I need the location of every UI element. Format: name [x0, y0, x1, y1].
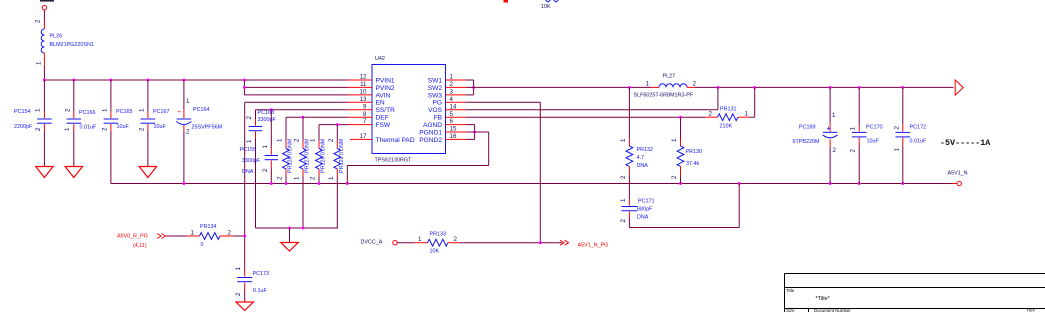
svg-text:2: 2 [102, 127, 109, 131]
pin 9 SS/TR [348, 109, 373, 111]
ground [139, 167, 156, 178]
resistor PR132 [620, 87, 653, 199]
capacitor PC171 [620, 198, 655, 223]
pin 5 FB [446, 116, 467, 118]
svg-text:1: 1 [832, 112, 836, 119]
op-amp/regulator U42 body [372, 65, 446, 154]
svg-text:2: 2 [139, 127, 146, 131]
pin 2 of PL26 [43, 22, 45, 29]
svg-text:1: 1 [191, 230, 195, 237]
ferrite bead PL26 [41, 29, 44, 53]
svg-text:2: 2 [277, 176, 284, 180]
svg-text:2: 2 [620, 175, 627, 179]
svg-text:A5V0_R_PG: A5V0_R_PG [117, 234, 148, 240]
svg-text:DNA: DNA [637, 215, 649, 221]
SECTION: title block [785, 274, 1045, 312]
capacitor PC170 [850, 87, 883, 183]
svg-text:8: 8 [363, 111, 367, 118]
wire stub from sheet above [504, 0, 509, 3]
svg-text:6TPB220M: 6TPB220M [793, 139, 820, 145]
svg-text:DNM: DNM [339, 138, 345, 151]
resistor PR134 [187, 224, 234, 248]
svg-text:PVIN1: PVIN1 [376, 77, 395, 84]
resistor PR131 [706, 107, 750, 130]
wire DEF net [286, 116, 348, 118]
svg-text:1: 1 [246, 139, 253, 143]
pin 10 AVIN [348, 94, 373, 96]
wire VOS [466, 109, 718, 111]
svg-text:SW1: SW1 [428, 77, 443, 84]
svg-text:2: 2 [454, 236, 458, 243]
svg-text:16: 16 [450, 133, 457, 140]
wire PG [466, 101, 540, 103]
VIN bus wire [44, 79, 347, 81]
capacitor PC172 [893, 87, 927, 183]
pin 13 EN [348, 101, 373, 103]
svg-text:2: 2 [235, 292, 242, 296]
input terminal [42, 6, 46, 10]
resistor PR128 [310, 125, 327, 184]
svg-text:1: 1 [745, 111, 749, 118]
net name fragment top-left [40, 0, 54, 2]
svg-text:DNA: DNA [242, 169, 254, 175]
svg-text:PC165: PC165 [116, 109, 132, 115]
svg-text:2: 2 [709, 111, 713, 118]
svg-text:(4,11): (4,11) [133, 243, 147, 249]
node dots on GND bus [182, 182, 185, 185]
pin 4 PG [446, 101, 467, 103]
svg-text:3300pF: 3300pF [258, 117, 277, 123]
svg-text:FB: FB [434, 115, 443, 122]
resistor PR129 [328, 125, 345, 228]
capacitor PC168 [246, 110, 276, 228]
resistor PR130 [671, 117, 702, 183]
pin fragment marks [546, 0, 551, 2]
svg-text:2200pF: 2200pF [14, 124, 33, 130]
svg-text:PL27: PL27 [663, 74, 676, 80]
svg-text:12: 12 [360, 74, 367, 81]
svg-text:6: 6 [450, 118, 454, 125]
svg-text:DEF: DEF [376, 115, 389, 122]
svg-text:3300pF: 3300pF [242, 158, 261, 164]
wire to AVIN [244, 94, 347, 96]
polarized capacitor PC164 [176, 80, 222, 184]
resistor PR127 [294, 117, 311, 228]
svg-text:4: 4 [450, 96, 454, 103]
wire snubber return [628, 219, 630, 228]
svg-text:PC164: PC164 [193, 107, 209, 113]
svg-text:PC170: PC170 [866, 125, 882, 131]
pin 14 VOS [446, 109, 467, 111]
wire PG out [460, 242, 562, 244]
ground [236, 302, 253, 311]
svg-text:Size: Size [786, 308, 795, 312]
svg-text:DNM: DNM [321, 138, 327, 151]
svg-text:1: 1 [646, 80, 650, 87]
svg-text:17: 17 [360, 133, 367, 140]
svg-text:PL26: PL26 [50, 34, 63, 40]
svg-text:TPS62130RGT: TPS62130RGT [375, 158, 413, 164]
svg-text:0.1uF: 0.1uF [253, 288, 267, 294]
svg-text:Document Number: Document Number [814, 308, 851, 312]
svg-text:2: 2 [310, 176, 317, 180]
capacitor PC166 [64, 80, 97, 167]
svg-text:210K: 210K [720, 124, 733, 130]
capacitor PC173 [235, 236, 269, 302]
svg-text:1: 1 [102, 108, 109, 112]
pin 17 Thermal PAD [350, 138, 372, 140]
svg-text:0.01uF: 0.01uF [80, 125, 97, 131]
pin 16 PGND2 [446, 138, 467, 140]
svg-text:A5V1_N_PG: A5V1_N_PG [578, 243, 609, 249]
svg-text:1: 1 [620, 198, 627, 202]
capacitor PC154 [14, 80, 52, 167]
svg-text:A5V1_N: A5V1_N [948, 171, 968, 177]
capacitor PC155 [240, 110, 279, 184]
svg-text:680pF: 680pF [637, 207, 653, 213]
GND bus wire [111, 183, 952, 185]
wire [397, 242, 414, 244]
svg-text:SW3: SW3 [428, 92, 443, 99]
wire lower gnd link [256, 227, 338, 229]
pin 7 FSW [348, 124, 373, 126]
svg-text:1: 1 [850, 126, 857, 130]
wire to EN vertical [234, 235, 245, 237]
wire SS/TR net [256, 109, 348, 111]
svg-text:BLM21PG220SN1: BLM21PG220SN1 [50, 42, 94, 48]
pin 15 PGND1 [446, 131, 467, 133]
svg-text:1: 1 [671, 138, 678, 142]
svg-text:1: 1 [450, 74, 454, 81]
svg-text:2: 2 [328, 138, 335, 142]
svg-text:*Title*: *Title* [816, 296, 831, 302]
wire output rail [695, 86, 954, 88]
wire gnd drop [289, 228, 291, 243]
svg-text:10K: 10K [430, 249, 440, 255]
capacitor PC167 [139, 80, 170, 167]
svg-text:25SVPF56M: 25SVPF56M [192, 125, 223, 131]
svg-text:1: 1 [418, 236, 422, 243]
svg-text:PG: PG [432, 100, 442, 107]
svg-text:9: 9 [363, 103, 367, 110]
svg-text:2: 2 [35, 127, 42, 131]
svg-text:PR131: PR131 [720, 107, 736, 113]
svg-text:10uF: 10uF [867, 139, 880, 145]
svg-text:DNA: DNA [637, 163, 649, 169]
pin 12 PVIN1 [348, 79, 373, 81]
svg-text:2: 2 [228, 230, 232, 237]
svg-text:1: 1 [36, 61, 43, 65]
svg-text:1: 1 [294, 176, 301, 180]
svg-text:2: 2 [294, 138, 301, 142]
svg-text:PC173: PC173 [253, 271, 269, 277]
wire [43, 10, 45, 22]
svg-text:PR128 0: PR128 0 [321, 152, 327, 173]
svg-text:SW2: SW2 [428, 85, 443, 92]
svg-text:PR126 0: PR126 0 [288, 152, 294, 173]
net A5V1_N_PG output [560, 240, 569, 245]
svg-text:PGND2: PGND2 [419, 137, 442, 144]
svg-text:1: 1 [186, 98, 190, 105]
svg-text:2: 2 [186, 129, 190, 136]
svg-text:5: 5 [450, 111, 454, 118]
capacitor PC165 [102, 80, 133, 184]
pin 11 PVIN2 [348, 86, 373, 88]
wire PGND1 return [466, 131, 489, 133]
svg-text:EN: EN [376, 100, 385, 107]
svg-text:37.4k: 37.4k [686, 161, 699, 167]
svg-text:AVIN: AVIN [376, 92, 391, 99]
svg-text:FSW: FSW [376, 122, 391, 129]
svg-text:PR130: PR130 [686, 149, 702, 155]
wire AGND tie [466, 124, 475, 126]
svg-text:2: 2 [35, 19, 42, 23]
svg-text:14: 14 [450, 103, 457, 110]
svg-text:+: + [178, 110, 181, 116]
wire FSW net [319, 124, 348, 126]
svg-text:10uF: 10uF [117, 124, 130, 130]
svg-text:2: 2 [893, 126, 900, 130]
svg-text:PC155: PC155 [240, 147, 256, 153]
svg-text:Thermal PAD: Thermal PAD [376, 137, 415, 144]
svg-text:VOS: VOS [428, 107, 443, 114]
wire SW tie [466, 79, 474, 81]
svg-text:1: 1 [893, 148, 900, 152]
ground [65, 167, 82, 178]
svg-text:7: 7 [363, 118, 367, 125]
svg-text:1: 1 [235, 267, 242, 271]
svg-text:1: 1 [262, 145, 269, 149]
svg-text:Title: Title [786, 288, 795, 293]
svg-text:2: 2 [671, 175, 678, 179]
svg-text:10uF: 10uF [154, 124, 167, 130]
svg-text:PC166: PC166 [79, 110, 95, 116]
pin 6 AGND [446, 124, 467, 126]
wire to PVIN2 [244, 86, 347, 88]
svg-text:1: 1 [328, 176, 335, 180]
svg-text:1: 1 [64, 127, 71, 131]
svg-text:0.01uF: 0.01uF [910, 139, 927, 145]
svg-text:2: 2 [246, 116, 253, 120]
ground [36, 167, 53, 178]
svg-text:1: 1 [620, 138, 627, 142]
wire FB [466, 116, 706, 118]
svg-text:DVCC_A: DVCC_A [361, 240, 383, 246]
inductor PL27 [634, 74, 697, 99]
wire FB top tie [749, 116, 755, 118]
wire SW node [466, 86, 651, 88]
wire EN net [245, 101, 348, 103]
svg-text:2: 2 [64, 108, 71, 112]
svg-text:PR132: PR132 [637, 147, 653, 153]
wire VIN vertical feed [243, 80, 245, 95]
svg-text:PR129 0: PR129 0 [339, 152, 345, 173]
svg-text:15: 15 [450, 126, 457, 133]
svg-text:PVIN2: PVIN2 [376, 85, 395, 92]
svg-text:PR133: PR133 [430, 232, 446, 238]
resistor PR133 [414, 232, 460, 255]
svg-text:0: 0 [201, 242, 204, 248]
svg-text:PGND1: PGND1 [419, 129, 442, 136]
svg-text:PR127 0: PR127 0 [305, 152, 311, 173]
svg-text:-5V-----1A: -5V-----1A [940, 138, 991, 148]
svg-text:11: 11 [360, 81, 367, 88]
svg-text:1: 1 [310, 138, 317, 142]
svg-text:PC154: PC154 [14, 109, 30, 115]
svg-text:SS/TR: SS/TR [376, 107, 396, 114]
svg-text:10K: 10K [541, 4, 551, 10]
svg-text:2: 2 [450, 81, 454, 88]
svg-text:2: 2 [693, 80, 697, 87]
pin 8 DEF [348, 116, 373, 118]
pin names right column [419, 77, 442, 143]
wire [166, 235, 187, 237]
svg-text:SLF6025T-6R8M1R3-PF: SLF6025T-6R8M1R3-PF [634, 93, 694, 99]
svg-text:AGND: AGND [423, 122, 442, 129]
svg-text:PC169: PC169 [799, 124, 815, 130]
svg-text:1: 1 [35, 108, 42, 112]
svg-text:2: 2 [850, 149, 857, 153]
svg-text:PR134: PR134 [200, 224, 216, 230]
svg-text:2: 2 [833, 147, 837, 154]
svg-text:PC167: PC167 [153, 109, 169, 115]
svg-text:4.7: 4.7 [637, 155, 645, 161]
wire [43, 66, 45, 80]
svg-text:U42: U42 [375, 56, 385, 62]
svg-text:10: 10 [360, 89, 367, 96]
pin 3 SW3 [446, 94, 467, 96]
svg-text:2: 2 [262, 168, 269, 172]
svg-text:1: 1 [139, 108, 146, 112]
svg-text:+: + [827, 125, 831, 132]
ground [281, 243, 298, 252]
svg-text:Rev: Rev [1027, 308, 1036, 312]
node dots on VIN bus [43, 79, 46, 82]
pin 1 of PL26 [43, 53, 45, 66]
svg-text:PC172: PC172 [910, 125, 926, 131]
pin 1 SW1 [446, 79, 467, 81]
polarized capacitor PC169 [793, 87, 838, 183]
GND bus terminal A5V1_N [952, 183, 957, 185]
resistor PR126 [277, 117, 294, 183]
pin names left column [376, 77, 415, 143]
svg-text:1: 1 [277, 138, 284, 142]
output port arrow [955, 80, 963, 95]
svg-text:13: 13 [360, 96, 367, 103]
svg-text:2: 2 [620, 219, 627, 223]
pin 2 SW2 [446, 86, 467, 88]
svg-text:PC171: PC171 [638, 199, 654, 205]
svg-text:3: 3 [450, 89, 454, 96]
